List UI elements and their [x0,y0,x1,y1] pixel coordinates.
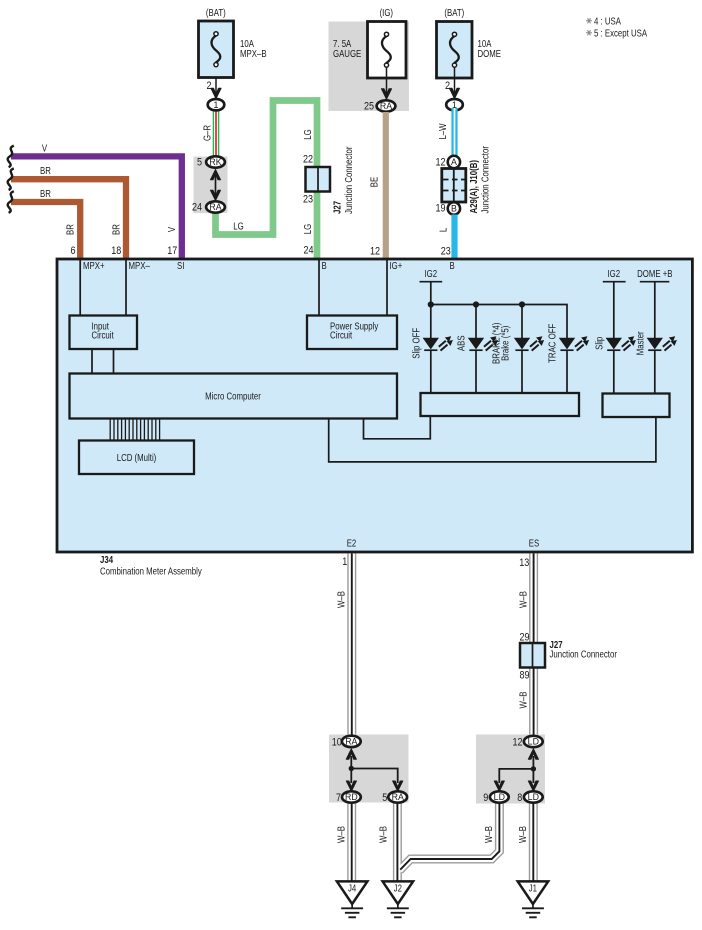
svg-text:ABS: ABS [456,335,467,351]
svg-text:4 : USA: 4 : USA [594,15,621,26]
W-B wire harness bottom (gray edges) [352,554,534,882]
wire micro to driver box left [364,416,431,439]
svg-text:GAUGE: GAUGE [333,48,361,59]
svg-text:MPX–: MPX– [129,260,150,271]
oval LD pin 8 [517,791,542,804]
wire W-B 5RA to J2 (outline) [393,803,402,882]
svg-text:TRAC OFF: TRAC OFF [547,323,558,363]
ground J2 [383,881,414,917]
junction connector RK/RA gray box [194,157,228,214]
connector gray box right (LD/LD/LD) [476,735,545,804]
svg-text:A: A [451,157,457,167]
svg-text:MPX–B: MPX–B [240,48,267,59]
svg-text:W–B: W–B [483,826,494,843]
wire W-B 8LD to J1 (core) [530,803,536,882]
svg-text:17: 17 [167,245,177,257]
svg-text:J4: J4 [348,883,356,894]
svg-text:24: 24 [303,245,313,257]
svg-text:DOME: DOME [478,48,502,59]
wire W-B ES to 12LD (outline) [529,554,538,737]
svg-text:5: 5 [382,792,387,804]
internal wires to power supply [319,259,387,316]
svg-text:SI: SI [177,260,184,271]
fuse 10A MPX-B [199,7,267,77]
wire W-B ES to 12LD (stripe) [533,554,535,737]
svg-text:J1: J1 [529,883,537,894]
svg-text:RA: RA [392,792,404,802]
svg-text:LG: LG [302,224,313,235]
svg-text:RA: RA [345,737,357,747]
svg-text:(IG): (IG) [380,7,394,18]
svg-text:E2: E2 [347,538,357,549]
svg-text:RA: RA [380,101,392,111]
svg-text:Slip: Slip [594,337,605,350]
svg-text:12: 12 [370,246,380,258]
svg-text:Circuit: Circuit [92,330,115,341]
svg-text:B: B [450,260,455,271]
LED Master [635,331,677,393]
wire BR (break to MPX+) [8,191,81,258]
LED ABS [456,335,498,393]
oval RA pin 25 [364,100,395,112]
svg-text:(BAT): (BAT) [206,7,226,18]
svg-text:BR: BR [40,165,51,176]
svg-text:DOME +B: DOME +B [637,268,673,279]
wire V (break to SI) [8,146,182,258]
svg-text:12: 12 [435,157,445,169]
oval RD pin 7 [336,791,361,804]
wire L [451,215,457,259]
connector gray box left (RA/RD/RA) [329,735,409,803]
oval RA pin 5 [382,791,407,804]
svg-text:LD: LD [494,792,505,802]
ground J4 [337,881,368,917]
lamp driver box right [603,394,670,418]
svg-text:7: 7 [336,792,341,804]
oval LD pin 9 [483,791,508,804]
svg-text:LG: LG [233,221,244,232]
wire W-B 5RA to J2 (stripe) [396,803,398,882]
oval LD pin 12 [512,736,542,749]
wire L-W [451,108,457,156]
IG2 rail right [603,268,626,338]
svg-text:V: V [42,142,47,153]
legend star 4 USA [586,18,592,23]
svg-text:Circuit: Circuit [330,330,353,341]
W-B wire harness bottom (black stripes) [352,554,534,882]
svg-text:B: B [451,204,457,214]
wire BR (break to MPX-) [8,168,126,258]
LED Slip OFF [411,327,453,393]
connector oval 1 (dome) [446,99,463,110]
oval RK pin 5 [197,156,225,168]
svg-text:MPX+: MPX+ [83,260,105,271]
wire W-B 9LD merge to J2 (core) [400,803,500,871]
wire micro to driver box right [329,417,656,462]
svg-text:A29(A), J10(B): A29(A), J10(B) [468,160,479,214]
wire W-B 7RD to J4 (stripe) [351,803,353,882]
wire LG loop (RA to J27 to B24) [216,101,318,259]
svg-text:W–B: W–B [517,826,528,843]
pin 2 arrow (dome) [445,80,460,99]
wire W-B ES to 12LD (core) [530,554,536,737]
svg-text:RK: RK [209,157,221,167]
svg-text:IG2: IG2 [424,268,437,279]
svg-text:5: 5 [197,156,202,168]
power supply circuit box [307,316,397,350]
svg-text:Junction Connector: Junction Connector [480,146,491,213]
svg-text:W–B: W–B [517,691,528,708]
svg-text:V: V [166,227,177,232]
fuse 7.5A GAUGE gray box [329,7,410,111]
micro computer box [70,374,398,419]
svg-text:LCD (Multi): LCD (Multi) [117,452,157,463]
svg-text:Master: Master [635,331,646,355]
hatch bus micro to LCD [110,419,159,441]
LCD (Multi) box [79,441,194,475]
wire W-B E2 to 10RA (outline) [347,554,356,737]
svg-text:LD: LD [528,737,539,747]
svg-text:L: L [438,228,449,232]
svg-text:BR: BR [65,224,76,235]
svg-text:89: 89 [519,670,529,682]
svg-text:Junction Connector: Junction Connector [343,147,354,214]
svg-text:19: 19 [435,203,445,215]
svg-text:W–B: W–B [378,826,389,843]
pin 2 arrow [206,80,221,99]
junction connector J27 bottom [519,632,617,682]
component J34 combination meter assembly box [57,259,692,552]
wire W-B E2 to 10RA (stripe) [351,554,353,737]
svg-text:W–B: W–B [336,591,347,608]
svg-text:25: 25 [364,100,374,112]
W-B wire harness bottom (white cores) [352,554,534,882]
svg-text:Junction Connector: Junction Connector [550,649,617,660]
svg-text:2: 2 [445,80,450,92]
svg-text:6: 6 [70,245,75,257]
svg-text:18: 18 [111,245,121,257]
svg-text:Micro Computer: Micro Computer [205,391,261,402]
svg-text:J27: J27 [332,201,343,214]
svg-text:IG+: IG+ [390,260,403,271]
wire BE [383,112,389,258]
svg-text:1: 1 [214,100,219,110]
svg-text:RA: RA [209,202,221,212]
wires input to micro computer [92,349,114,374]
svg-text:Combination Meter Assembly: Combination Meter Assembly [100,565,202,576]
oval RA pin 24 [192,201,225,213]
wire W-B 7RD to J4 (outline) [347,803,356,882]
IG2 rail left [420,268,443,338]
svg-text:10: 10 [332,736,342,748]
svg-text:BR: BR [110,224,121,235]
svg-text:12: 12 [512,736,522,748]
legend star 5 Except USA [586,30,592,35]
svg-text:L–W: L–W [437,123,448,140]
junction connector A29/J10 [435,146,490,215]
svg-text:8: 8 [517,792,522,804]
svg-text:(BAT): (BAT) [444,7,464,18]
svg-text:9: 9 [483,792,488,804]
input circuit box [70,316,138,350]
lamp driver box left [421,393,580,416]
wire W-B 9LD merge to J2 (outline) [400,803,500,871]
svg-text:24: 24 [192,201,202,213]
connector oval 1 [208,99,225,110]
wire W-B 9LD merge to J2 (stripe) [400,803,499,870]
wire G-R (fuse MPX-B to RK) [215,66,217,158]
wire W-B 8LD to J1 (outline) [529,803,538,882]
svg-text:J2: J2 [394,883,402,894]
svg-text:W–B: W–B [517,591,528,608]
svg-text:IG2: IG2 [607,268,620,279]
svg-text:W–B: W–B [335,826,346,843]
svg-text:Brake (*5): Brake (*5) [500,326,511,361]
LED BRAKE [491,323,544,394]
wire W-B 5RA to J2 (core) [394,803,400,882]
svg-text:BE: BE [369,177,380,188]
svg-text:J34: J34 [100,554,113,565]
wire W-B 7RD to J4 (core) [349,803,355,882]
svg-text:22: 22 [303,154,313,166]
svg-text:1: 1 [342,556,347,568]
svg-text:LD: LD [528,792,539,802]
svg-text:G–R: G–R [202,125,213,141]
svg-text:Slip OFF: Slip OFF [411,327,422,358]
svg-text:2: 2 [206,80,211,92]
LED Slip [594,336,636,394]
svg-text:5 : Except USA: 5 : Except USA [594,27,647,38]
fuse 10A DOME [437,7,502,99]
svg-text:23: 23 [303,194,313,206]
ground J1 [518,881,549,917]
svg-text:23: 23 [441,246,451,258]
wire W-B E2 to 10RA (core) [349,554,355,737]
svg-text:ES: ES [529,538,540,549]
DOME +B rail [637,268,673,338]
LED TRAC OFF [547,323,589,393]
internal wires to input circuit [80,259,126,316]
svg-text:BR: BR [40,188,51,199]
bus line lamp group [428,301,567,338]
svg-text:B: B [322,260,327,271]
svg-text:LG: LG [302,129,313,140]
wire W-B 8LD to J1 (stripe) [532,803,534,882]
junction connector J27 top [303,147,354,214]
svg-text:RD: RD [345,792,358,802]
svg-text:13: 13 [519,557,529,569]
oval RA pin 10 [332,736,361,749]
